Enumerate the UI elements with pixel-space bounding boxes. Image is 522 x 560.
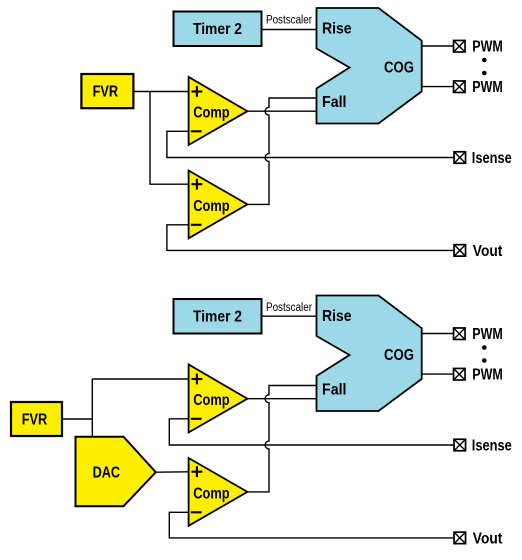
pin label Rise (top COG) — [322, 21, 352, 38]
terminal pad PWM 2 (bottom) — [454, 368, 466, 380]
svg-text:DAC: DAC — [93, 464, 121, 481]
wire C1 output to COG Fall (top) — [247, 110, 317, 112]
svg-text:Comp: Comp — [193, 486, 229, 503]
terminal pad Vout (bottom) — [454, 532, 466, 544]
net label Postscaler (top) — [266, 15, 312, 27]
block name COG (top) — [384, 59, 414, 76]
wire COG to PWM pad 1 (top) — [422, 45, 454, 47]
label DAC (bottom) — [93, 464, 121, 481]
svg-text:Timer 2: Timer 2 — [193, 21, 242, 38]
terminal pad PWM 2 (top) — [454, 81, 466, 93]
label PWM 2 (top) — [472, 79, 503, 96]
wire COG to PWM pad 2 (top) — [422, 86, 454, 88]
minus input symbol C1 (top) — [191, 130, 202, 132]
svg-text:Rise: Rise — [322, 21, 352, 38]
svg-text:Comp: Comp — [193, 198, 229, 215]
svg-text:COG: COG — [384, 347, 414, 364]
svg-text:Isense: Isense — [472, 150, 512, 167]
label Vout (bottom) — [473, 531, 503, 548]
block COG (top) — [317, 8, 422, 124]
wire COG to PWM pad 1 (bottom) — [422, 333, 454, 335]
pin label Fall (bottom COG) — [322, 382, 347, 399]
label Vout (top) — [473, 243, 503, 260]
wire Timer 2 postscaler output to COG Rise input (top) — [262, 29, 318, 31]
svg-text:FVR: FVR — [93, 84, 119, 101]
plus input symbol C2 (bottom) — [192, 466, 203, 477]
svg-text:COG: COG — [384, 59, 414, 76]
terminal pad PWM 1 (top) — [454, 40, 466, 52]
block Timer 2 (top) — [174, 12, 262, 47]
svg-text:PWM: PWM — [472, 367, 503, 384]
wire branch FVR to C2 plus input (top) — [150, 92, 189, 185]
op-amp comparator C2 (top) — [189, 171, 248, 239]
pin label Fall (top COG) — [322, 94, 347, 111]
label Comp C2 (bottom) — [193, 486, 229, 503]
wire C1 inverting input to Isense net (top) — [167, 131, 454, 157]
svg-text:Isense: Isense — [472, 438, 512, 455]
svg-text:Vout: Vout — [473, 531, 503, 548]
wire C1 inverting input to Isense net (bottom) — [169, 419, 454, 445]
svg-text:PWM: PWM — [472, 39, 503, 56]
minus input symbol C2 (top) — [191, 224, 202, 226]
terminal pad Vout (top) — [454, 245, 466, 257]
label Comp C1 (bottom) — [193, 392, 229, 409]
ellipsis dots between PWM pins (bottom) — [482, 345, 487, 363]
svg-text:Postscaler: Postscaler — [266, 15, 312, 27]
pin label Rise (bottom COG) — [322, 308, 352, 325]
svg-text:Comp: Comp — [193, 105, 229, 122]
plus input symbol C1 (top) — [192, 86, 203, 97]
minus input symbol C2 (bottom) — [191, 511, 202, 513]
svg-text:Rise: Rise — [322, 308, 352, 325]
wire Timer 2 postscaler output to COG Rise input (bottom) — [262, 315, 318, 317]
svg-text:Vout: Vout — [473, 243, 503, 260]
svg-text:Comp: Comp — [193, 392, 229, 409]
svg-text:Fall: Fall — [322, 382, 347, 399]
wire junction to C1 plus input (bottom) — [92, 378, 188, 380]
label Comp C1 (top) — [193, 105, 229, 122]
block FVR (top) — [81, 74, 133, 108]
svg-text:PWM: PWM — [472, 326, 503, 343]
block name COG (bottom) — [384, 347, 414, 364]
wire COG to PWM pad 2 (bottom) — [422, 373, 454, 375]
block DAC (bottom) — [76, 437, 156, 507]
wire C1 output to COG Fall (bottom) — [247, 398, 317, 400]
op-amp comparator C2 (bottom) — [189, 458, 248, 526]
block FVR (bottom) — [11, 402, 62, 436]
label PWM 1 (bottom) — [472, 326, 503, 343]
ellipsis dots between PWM pins (top) — [482, 58, 487, 76]
terminal pad PWM 1 (bottom) — [454, 328, 466, 340]
svg-text:Timer 2: Timer 2 — [193, 309, 242, 326]
svg-text:PWM: PWM — [472, 79, 503, 96]
terminal pad Isense (top) — [454, 152, 466, 164]
wire FVR output to C1 plus input (top) — [133, 91, 188, 93]
svg-text:Fall: Fall — [322, 94, 347, 111]
op-amp comparator C1 (bottom) — [189, 365, 248, 433]
wire C2 output up to COG Fall with crossover hops (bottom) — [247, 386, 317, 492]
block COG (bottom) — [317, 296, 422, 412]
label PWM 2 (bottom) — [472, 367, 503, 384]
wire DAC output to C2 plus input (bottom) — [156, 471, 189, 473]
svg-text:FVR: FVR — [22, 412, 48, 429]
minus input symbol C1 (bottom) — [191, 418, 202, 420]
block Timer 2 (bottom) — [174, 299, 262, 334]
net label Postscaler (bottom) — [266, 302, 312, 314]
wire C2 output up to COG Fall with crossover hops (top) — [247, 98, 317, 204]
plus input symbol C1 (bottom) — [192, 374, 203, 385]
wire FVR output (bottom) — [62, 418, 92, 420]
terminal pad Isense (bottom) — [454, 439, 466, 451]
plus input symbol C2 (top) — [192, 179, 203, 190]
wire junction vertical FVR/DAC/C1 (bottom) — [91, 379, 93, 438]
wire C2 inverting input to Vout net (bottom) — [169, 512, 454, 538]
svg-text:Postscaler: Postscaler — [266, 302, 312, 314]
label Isense (bottom) — [472, 438, 512, 455]
wire C2 inverting input to Vout net (top) — [167, 225, 454, 251]
label Isense (top) — [472, 150, 512, 167]
label PWM 1 (top) — [472, 39, 503, 56]
label Comp C2 (top) — [193, 198, 229, 215]
op-amp comparator C1 (top) — [189, 77, 248, 145]
